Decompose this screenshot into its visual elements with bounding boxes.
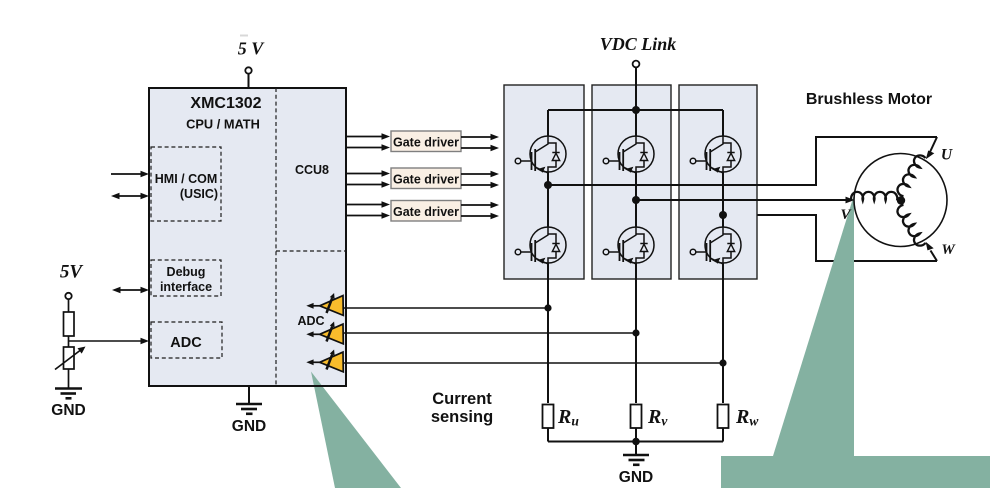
svg-text:Gate driver: Gate driver (393, 205, 459, 219)
transistor Q3 (W high) (690, 136, 741, 173)
resistor Rv (631, 405, 642, 429)
resistor Rw (718, 405, 729, 429)
wire bus to Q3 (722, 110, 724, 136)
green wedge callout (right, from motor winding) (721, 195, 990, 488)
ground GND bottom (619, 442, 653, 487)
wire phase W arrow into motor (926, 242, 937, 261)
winding phase W (lower right) (895, 204, 926, 248)
wires PWM pair 1 out (461, 134, 499, 151)
wire arrow into HMI (111, 171, 149, 177)
inverter leg W box (679, 85, 757, 279)
op-amp A3 (sense W) (306, 350, 343, 372)
winding phase U (upper right) (895, 153, 926, 197)
svg-text:GND: GND (232, 418, 266, 435)
wire Q4 emitter down to Ru (547, 263, 549, 403)
svg-text:U: U (941, 147, 953, 164)
junction ground bus (632, 438, 640, 446)
wire sense V to ADC amp (344, 332, 636, 334)
wire sense U to ADC amp (344, 307, 548, 309)
wire Rw to gnd bus (722, 428, 724, 442)
svg-text:GND: GND (51, 402, 85, 419)
wire to ground (68, 369, 70, 388)
svg-text:interface: interface (160, 280, 212, 294)
MCU block U1 XMC1302 border (149, 88, 346, 386)
junction phase V (632, 196, 640, 204)
junction sense V (632, 329, 639, 336)
svg-text:ADC: ADC (297, 314, 324, 328)
node motor star point (897, 196, 905, 204)
svg-text:Rw: Rw (735, 406, 759, 429)
wire sense W to ADC amp (344, 362, 723, 364)
MCU block U1 XMC1302 fill (149, 88, 346, 386)
ground GND left (51, 389, 85, 420)
svg-text:Gate driver: Gate driver (393, 173, 459, 187)
wire 5V to MCU (248, 74, 250, 88)
stray crop artifact (240, 35, 248, 37)
inverter leg U box (504, 85, 584, 279)
gate driver B (391, 168, 461, 189)
wire Q6 emitter down to Rw (722, 263, 724, 403)
wire DC bus (548, 109, 723, 111)
terminal 5V (245, 67, 251, 73)
svg-text:CPU / MATH: CPU / MATH (186, 117, 260, 132)
wire bus to Q1 (547, 110, 549, 136)
wires PWM pair 3 out (461, 202, 499, 219)
op-amp A1 (sense U) (306, 293, 343, 315)
wire Q5 emitter down to Rv (635, 263, 637, 403)
wire Ru to gnd bus (547, 428, 549, 442)
dashed ADC amplifier section (276, 250, 346, 252)
svg-text:W: W (941, 242, 956, 258)
wire phase W lower route (under green wedge) (723, 215, 937, 261)
wire Q3-Q6 phase W leg (722, 172, 724, 227)
wire double arrow Debug (112, 287, 149, 293)
svg-text:ADC: ADC (170, 335, 202, 351)
inverter leg V box (592, 85, 671, 279)
transistor Q4 (U low) (515, 227, 566, 264)
wire phase V with arrow (636, 197, 855, 204)
svg-text:sensing: sensing (431, 408, 493, 426)
ground GND under MCU (232, 386, 266, 435)
wires PWM pair 3 in (346, 201, 390, 218)
gate driver A (391, 131, 461, 152)
svg-text:(USIC): (USIC) (180, 187, 218, 201)
svg-text:Ru: Ru (557, 406, 579, 429)
junction sense U (544, 304, 551, 311)
svg-text:Brushless Motor: Brushless Motor (806, 91, 932, 108)
svg-text:Current: Current (432, 390, 492, 408)
block ADC input (151, 322, 222, 358)
wire Q2-Q5 phase V leg (635, 172, 637, 227)
wire double arrow HMI (111, 193, 149, 199)
transistor Q2 (V high) (603, 136, 654, 173)
terminal 5V (65, 293, 71, 299)
transistor Q1 (U high) (515, 136, 566, 173)
variable resistor R2 (55, 347, 86, 370)
wires PWM pair 2 in (346, 170, 390, 187)
winding phase V (left) (851, 192, 897, 201)
svg-text:5V: 5V (60, 262, 84, 283)
svg-text:5 V: 5 V (238, 39, 266, 59)
transistor Q6 (W low) (690, 227, 741, 264)
wire ground bus (548, 441, 723, 443)
svg-text:VDC Link: VDC Link (600, 34, 677, 54)
wire Q1-Q4 phase U leg (547, 172, 549, 227)
block HMI/COM (USIC) (151, 147, 221, 221)
junction phase W (719, 211, 727, 219)
transistor Q5 (V low) (603, 227, 654, 264)
motor M1 body (854, 154, 947, 247)
wire phase U arrow into motor (926, 137, 937, 159)
svg-text:HMI / COM: HMI / COM (155, 172, 218, 186)
svg-text:Debug: Debug (167, 265, 206, 279)
svg-text:XMC1302: XMC1302 (190, 95, 261, 112)
gate driver C (391, 201, 461, 222)
wire (68, 299, 70, 312)
green wedge callout (left, from ADC amp) (311, 372, 401, 488)
wires PWM pair 2 out (461, 171, 499, 188)
block Debug interface (151, 260, 221, 296)
resistor R1 (64, 312, 75, 336)
svg-text:CCU8: CCU8 (295, 163, 329, 177)
terminal VDC (633, 61, 640, 68)
wire phase U (548, 137, 937, 185)
resistor Ru (543, 405, 554, 429)
junction phase U (544, 181, 552, 189)
junction DC bus (632, 106, 640, 114)
wire Rv to gnd bus (635, 428, 637, 442)
svg-text:Gate driver: Gate driver (393, 136, 459, 150)
op-amp A2 (sense V) (306, 322, 343, 344)
wire VDC down (635, 67, 637, 110)
dashed divider CCU8 section (275, 88, 277, 385)
svg-text:Rv: Rv (647, 406, 668, 429)
wire with tap node (68, 336, 70, 347)
wire bus to Q2 (635, 110, 637, 136)
svg-text:GND: GND (619, 469, 653, 486)
wire divider tap to ADC with arrow (69, 338, 150, 344)
junction sense W (719, 359, 726, 366)
wires PWM pair 1 in (346, 133, 390, 150)
